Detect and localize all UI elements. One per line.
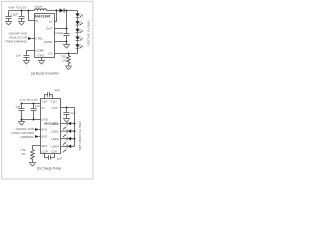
- svg-text:IN: IN: [35, 19, 38, 23]
- svg-text:1µF: 1µF: [35, 104, 40, 108]
- svg-text:LX: LX: [49, 20, 53, 24]
- wire LED string bottom / CS: [55, 48, 78, 53]
- svg-text:2.7V TO 5.5V: 2.7V TO 5.5V: [20, 98, 38, 102]
- capacitor C2 input right: [19, 11, 25, 22]
- op-amp U1 MAX1848 box: [35, 14, 55, 58]
- capacitor C7 flying C1: [45, 92, 53, 98]
- ground (R2): [29, 163, 36, 167]
- arrow CTRL input: [28, 37, 35, 40]
- wire OUT: [55, 28, 67, 30]
- svg-text:ONE TO FOUR LEDs: ONE TO FOUR LEDs: [78, 122, 82, 151]
- ground (C8): [63, 119, 70, 123]
- node rail cap2: [33, 103, 35, 105]
- svg-text:7.5k: 7.5k: [20, 148, 26, 152]
- ground (bus): [18, 120, 25, 126]
- svg-text:C2P: C2P: [42, 150, 48, 154]
- LED D2: [75, 13, 82, 21]
- svg-text:LED1: LED1: [51, 122, 59, 126]
- arrow EN2 input: [35, 135, 41, 138]
- node LX tap: [56, 10, 58, 12]
- resistor R1 sense: [67, 54, 71, 67]
- capacitor C4 1nF comp: [24, 56, 30, 61]
- LED D3: [75, 21, 82, 29]
- svg-text:LED2: LED2: [51, 130, 59, 134]
- svg-text:EN1: EN1: [42, 128, 48, 132]
- svg-text:(a) Boost Converter: (a) Boost Converter: [31, 72, 60, 76]
- wire LED2: [61, 130, 75, 132]
- node input cap tap: [21, 10, 23, 12]
- wire COMP: [27, 51, 35, 56]
- wire input rail (b): [22, 103, 41, 105]
- svg-text:1%: 1%: [62, 58, 67, 62]
- svg-text:MAX1848: MAX1848: [35, 14, 51, 18]
- svg-text:1µF: 1µF: [55, 88, 60, 92]
- wire LED1: [61, 123, 75, 125]
- node OUT-cap: [66, 28, 68, 30]
- wire GND stub: [41, 58, 43, 61]
- capacitor C9 flying C2: [45, 154, 55, 160]
- IC1 pin labels: [35, 14, 53, 57]
- svg-text:LED4: LED4: [51, 145, 59, 149]
- LED D7: [63, 122, 71, 130]
- svg-text:1%: 1%: [21, 152, 26, 156]
- wire OUT (b): [61, 108, 75, 147]
- svg-text:CS: CS: [48, 52, 52, 56]
- ground (C4): [23, 61, 30, 65]
- svg-text:PGND: PGND: [44, 40, 54, 44]
- node PGND-cap: [66, 41, 68, 43]
- ground (C2): [18, 22, 25, 26]
- node out cap (b): [66, 107, 68, 109]
- svg-text:C2N: C2N: [51, 150, 57, 154]
- wire IN drop: [29, 11, 35, 21]
- wire LED4: [61, 145, 75, 147]
- ground (C3/PGND): [63, 45, 70, 49]
- wire LED string top: [77, 11, 79, 14]
- border frame: [2, 1, 93, 179]
- svg-text:C1N: C1N: [50, 100, 56, 104]
- arrow EN1 input: [35, 128, 41, 131]
- wire output node: [66, 11, 68, 34]
- svg-text:DIMMING: DIMMING: [21, 135, 35, 139]
- capacitor C3 0.22uF output: [64, 34, 70, 45]
- LED D4: [75, 29, 82, 37]
- wire input rail (a): [9, 10, 78, 12]
- capacitor C6 1uF bypass: [31, 104, 37, 120]
- svg-text:CTRL: CTRL: [35, 37, 43, 41]
- svg-text:2.2µF: 2.2µF: [10, 13, 18, 17]
- ground (IC1 GND): [38, 61, 45, 65]
- LED D8: [63, 129, 71, 137]
- wire LED3: [61, 138, 75, 140]
- svg-text:TWO TO SIX LEDs: TWO TO SIX LEDs: [86, 20, 90, 46]
- wire PGND: [55, 41, 67, 43]
- svg-text:PWM DIMMING: PWM DIMMING: [6, 39, 28, 43]
- svg-text:SET: SET: [42, 144, 48, 148]
- svg-text:1µF: 1µF: [15, 105, 20, 109]
- LED D6: [75, 44, 82, 52]
- transistor U2 MAX1573 box: [41, 99, 61, 154]
- inductor L1: [35, 9, 47, 11]
- capacitor C8 1uF output: [64, 108, 70, 119]
- svg-text:GND: GND: [41, 117, 49, 121]
- LED D9: [63, 137, 71, 145]
- svg-text:(b) Charge Pump: (b) Charge Pump: [37, 167, 62, 171]
- wire ground bus: [22, 119, 41, 121]
- svg-text:EN2: EN2: [42, 135, 48, 139]
- ground (R1): [65, 66, 72, 70]
- svg-text:OUT: OUT: [51, 106, 58, 110]
- node rail cap1: [21, 103, 23, 105]
- svg-text:C1P: C1P: [42, 100, 48, 104]
- junction dots (a): [21, 10, 70, 55]
- svg-text:OUT: OUT: [46, 27, 53, 31]
- node CS-resistor: [68, 53, 70, 55]
- resistor R2 RSET: [31, 150, 35, 163]
- node output tap: [66, 10, 68, 12]
- node IN tap: [28, 10, 30, 12]
- node LED2 anode: [74, 130, 76, 132]
- svg-text:1nF: 1nF: [16, 54, 21, 58]
- capacitor C1 2.2uF input left: [6, 11, 12, 22]
- svg-text:10µH: 10µH: [34, 5, 42, 9]
- svg-text:GND: GND: [37, 53, 45, 57]
- svg-text:LED3: LED3: [51, 137, 59, 141]
- ground (C1): [5, 22, 12, 26]
- junction dots (b): [21, 103, 76, 140]
- svg-text:1µF: 1µF: [70, 111, 75, 115]
- LED D5: [75, 37, 82, 45]
- IC2 pin labels: [41, 100, 59, 154]
- node LED3 anode: [74, 138, 76, 140]
- svg-text:0.22µF: 0.22µF: [54, 31, 64, 35]
- capacitor C5 1uF input: [19, 104, 25, 120]
- diode D1: [60, 8, 65, 12]
- LED D10: [63, 145, 71, 153]
- node bus cap2: [33, 119, 35, 121]
- svg-text:IN: IN: [42, 106, 45, 110]
- node bus cap1: [21, 119, 23, 121]
- wire SET: [33, 146, 41, 150]
- wire LX: [55, 11, 57, 22]
- svg-text:4.8V TO 5.5V: 4.8V TO 5.5V: [9, 6, 27, 10]
- svg-text:1µF: 1µF: [57, 156, 62, 160]
- svg-text:COMP: COMP: [35, 49, 44, 53]
- node LED1 anode: [74, 123, 76, 125]
